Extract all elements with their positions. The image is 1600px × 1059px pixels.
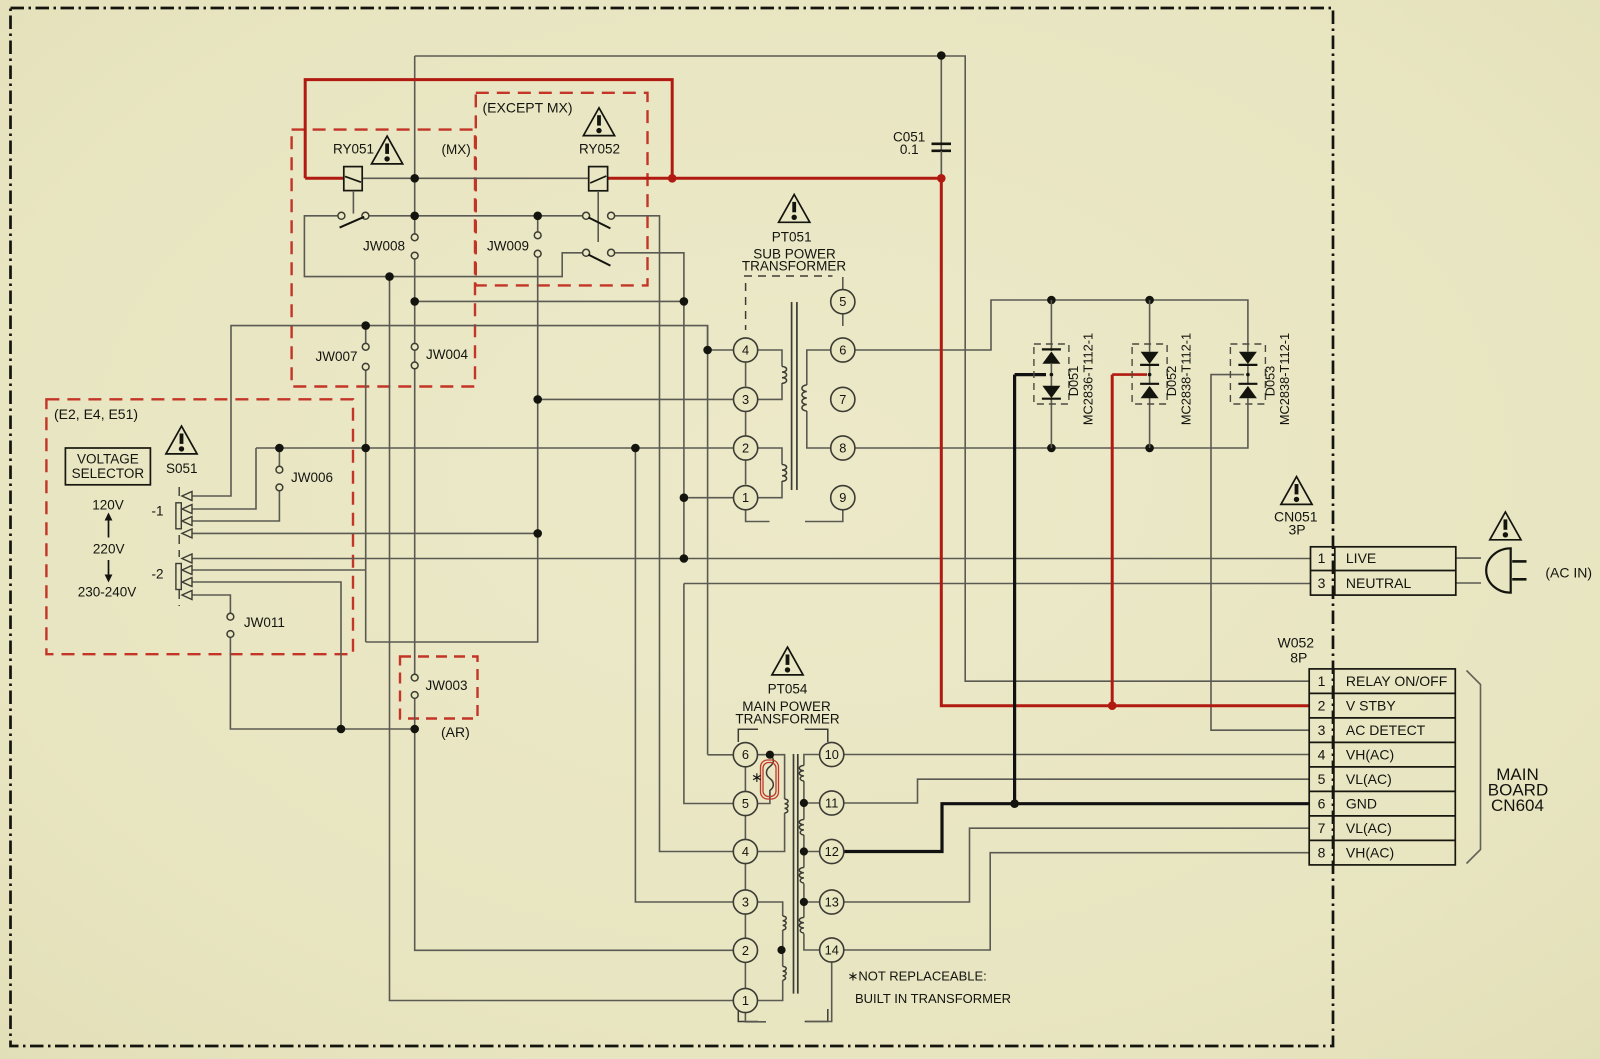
svg-text:RY051: RY051 xyxy=(333,142,374,157)
svg-text:W052: W052 xyxy=(1278,635,1315,651)
svg-text:14: 14 xyxy=(825,943,839,958)
svg-text:7: 7 xyxy=(839,392,846,407)
svg-text:JW011: JW011 xyxy=(244,615,285,630)
svg-text:6: 6 xyxy=(839,343,846,358)
svg-text:TRANSFORMER: TRANSFORMER xyxy=(735,712,840,727)
svg-text:TRANSFORMER: TRANSFORMER xyxy=(742,259,847,274)
svg-text:-2: -2 xyxy=(152,567,164,582)
svg-text:13: 13 xyxy=(825,895,839,910)
svg-text:JW003: JW003 xyxy=(426,678,468,693)
svg-text:1: 1 xyxy=(1318,673,1326,689)
svg-text:VH(AC): VH(AC) xyxy=(1346,747,1394,763)
svg-text:(MX): (MX) xyxy=(442,142,471,157)
svg-text:MC2838-T112-1: MC2838-T112-1 xyxy=(1179,333,1194,425)
svg-text:4: 4 xyxy=(1318,747,1326,763)
svg-text:JW009: JW009 xyxy=(487,239,529,254)
svg-text:5: 5 xyxy=(742,796,749,811)
svg-text:VH(AC): VH(AC) xyxy=(1346,845,1394,861)
svg-text:∗: ∗ xyxy=(751,769,763,785)
svg-text:RY052: RY052 xyxy=(579,142,620,157)
svg-text:RELAY ON/OFF: RELAY ON/OFF xyxy=(1346,673,1447,689)
svg-text:D053: D053 xyxy=(1262,366,1277,397)
svg-text:∗NOT REPLACEABLE:: ∗NOT REPLACEABLE: xyxy=(848,969,987,984)
svg-text:VL(AC): VL(AC) xyxy=(1346,820,1392,836)
svg-text:PT051: PT051 xyxy=(772,230,812,245)
svg-text:8: 8 xyxy=(1318,845,1326,861)
svg-text:2: 2 xyxy=(742,441,749,456)
svg-text:3P: 3P xyxy=(1288,522,1305,538)
svg-text:(E2, E4, E51): (E2, E4, E51) xyxy=(54,406,138,422)
svg-text:2: 2 xyxy=(1318,698,1326,714)
svg-text:4: 4 xyxy=(742,343,749,358)
svg-text:3: 3 xyxy=(742,392,749,407)
svg-text:3: 3 xyxy=(1318,722,1326,738)
svg-text:4: 4 xyxy=(742,844,749,859)
svg-text:1: 1 xyxy=(1318,550,1326,566)
svg-text:JW008: JW008 xyxy=(363,239,405,254)
svg-text:AC DETECT: AC DETECT xyxy=(1346,722,1426,738)
svg-text:8P: 8P xyxy=(1290,650,1307,666)
svg-text:6: 6 xyxy=(742,747,749,762)
svg-text:10: 10 xyxy=(825,747,839,762)
svg-text:CN604: CN604 xyxy=(1491,796,1544,815)
svg-text:5: 5 xyxy=(1318,771,1326,787)
svg-text:JW004: JW004 xyxy=(426,347,469,362)
svg-text:(EXCEPT MX): (EXCEPT MX) xyxy=(483,100,573,116)
svg-text:3: 3 xyxy=(1318,575,1326,591)
svg-text:8: 8 xyxy=(839,441,846,456)
svg-text:(AC IN): (AC IN) xyxy=(1545,565,1592,581)
svg-text:VOLTAGE: VOLTAGE xyxy=(77,452,139,467)
svg-text:VL(AC): VL(AC) xyxy=(1346,771,1392,787)
svg-text:1: 1 xyxy=(742,490,749,505)
svg-text:JW006: JW006 xyxy=(291,470,333,485)
svg-text:5: 5 xyxy=(839,294,846,309)
svg-text:12: 12 xyxy=(825,844,839,859)
svg-text:SELECTOR: SELECTOR xyxy=(72,466,145,481)
svg-text:230-240V: 230-240V xyxy=(78,585,137,600)
svg-text:6: 6 xyxy=(1318,796,1326,812)
svg-text:NEUTRAL: NEUTRAL xyxy=(1346,575,1412,591)
svg-text:2: 2 xyxy=(742,943,749,958)
svg-text:LIVE: LIVE xyxy=(1346,550,1376,566)
svg-text:S051: S051 xyxy=(166,461,198,476)
svg-text:JW007: JW007 xyxy=(316,349,358,364)
svg-text:MC2838-T112-1: MC2838-T112-1 xyxy=(1277,333,1292,425)
svg-text:220V: 220V xyxy=(93,542,125,557)
svg-text:V STBY: V STBY xyxy=(1346,698,1396,714)
svg-text:0.1: 0.1 xyxy=(900,142,919,157)
svg-text:(AR): (AR) xyxy=(441,724,470,740)
svg-text:D052: D052 xyxy=(1164,366,1179,397)
svg-text:120V: 120V xyxy=(92,498,124,513)
svg-text:7: 7 xyxy=(1318,820,1326,836)
svg-text:9: 9 xyxy=(839,490,846,505)
svg-text:BUILT IN TRANSFORMER: BUILT IN TRANSFORMER xyxy=(855,991,1011,1006)
svg-text:-1: -1 xyxy=(152,504,164,519)
svg-text:MC2836-T112-1: MC2836-T112-1 xyxy=(1081,333,1096,425)
svg-text:PT054: PT054 xyxy=(768,682,808,697)
svg-text:D051: D051 xyxy=(1066,366,1081,397)
svg-text:GND: GND xyxy=(1346,796,1377,812)
svg-text:1: 1 xyxy=(742,993,749,1008)
svg-text:11: 11 xyxy=(825,796,838,811)
svg-text:3: 3 xyxy=(742,895,749,910)
